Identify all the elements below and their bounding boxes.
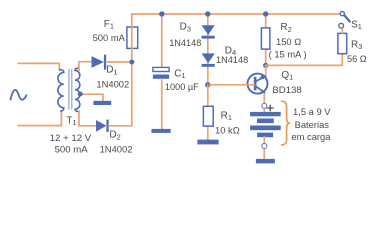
ground center tap xyxy=(93,101,111,105)
wire collector to battery xyxy=(263,91,265,112)
wire C1 to ground xyxy=(161,79,163,129)
resistor R3 56 ohm xyxy=(338,33,347,53)
svg-text:1N4002: 1N4002 xyxy=(100,144,133,155)
transformer T1 secondary winding xyxy=(75,68,80,112)
battery positive terminal xyxy=(262,103,267,108)
svg-text:D3: D3 xyxy=(180,22,191,34)
wire D1 cathode to rectifier node xyxy=(106,61,132,63)
label plus sign xyxy=(267,105,273,111)
wire rail through D3 D4 to base node xyxy=(207,14,209,85)
wire emitter node to R3 xyxy=(266,54,343,66)
wire battery to bottom terminal xyxy=(263,137,265,160)
wire top supply rail xyxy=(132,13,340,15)
node base bias xyxy=(205,82,210,87)
svg-text:12 + 12 V: 12 + 12 V xyxy=(50,133,92,144)
AC source sine symbol xyxy=(11,90,27,100)
svg-text:1000 µF: 1000 µF xyxy=(165,82,199,92)
resistor R1 10k xyxy=(203,106,213,126)
wire base node to transistor base xyxy=(210,84,255,86)
transistor Q1 BD138 xyxy=(248,74,268,94)
wire R3 to switch xyxy=(341,26,343,34)
svg-text:C1: C1 xyxy=(174,68,185,80)
wire rail through R2 to emitter node xyxy=(265,14,267,65)
wire D2 cathode to rectifier node xyxy=(109,125,132,127)
ground C1 xyxy=(152,129,171,133)
svg-text:1N4148: 1N4148 xyxy=(216,55,248,65)
ground battery xyxy=(256,159,275,164)
wire rail to C1 xyxy=(161,14,163,68)
brace battery annotation xyxy=(282,101,289,145)
svg-text:BD138: BD138 xyxy=(272,85,301,96)
node rail C1 xyxy=(159,11,164,16)
svg-text:S1: S1 xyxy=(351,19,362,31)
wire base node to R1 and ground xyxy=(207,85,209,140)
svg-text:F1: F1 xyxy=(104,19,114,31)
wire center tap to ground xyxy=(80,94,103,101)
node center tap xyxy=(78,92,83,97)
svg-text:R3: R3 xyxy=(351,39,362,51)
svg-text:R2: R2 xyxy=(280,22,291,34)
capacitor C1 1000uF xyxy=(153,67,169,78)
diode D2 1N4002 xyxy=(96,120,109,132)
wire emitter node to transistor xyxy=(265,65,267,77)
transformer T1 core xyxy=(69,70,72,110)
battery cells xyxy=(250,112,281,137)
svg-text:T1: T1 xyxy=(66,115,76,127)
fuse F1 body xyxy=(127,27,138,48)
switch S1 xyxy=(339,12,350,29)
wire rectifier node through fuse to top rail xyxy=(131,14,133,126)
svg-text:Baterias: Baterias xyxy=(295,119,330,130)
wire AC bottom to transformer primary xyxy=(18,112,61,126)
wire AC top to transformer primary xyxy=(18,63,59,70)
node rectifier output xyxy=(129,60,134,65)
battery negative terminal xyxy=(262,143,267,148)
svg-text:em carga: em carga xyxy=(291,131,331,142)
svg-text:D2: D2 xyxy=(109,130,120,142)
svg-text:D1: D1 xyxy=(106,65,117,77)
node rail R2 xyxy=(263,11,268,16)
svg-text:1N4148: 1N4148 xyxy=(169,38,201,48)
svg-text:Q1: Q1 xyxy=(281,70,293,82)
wire secondary bottom to diode D2 xyxy=(79,111,96,126)
svg-text:1N4002: 1N4002 xyxy=(96,79,129,90)
diode D1 1N4002 xyxy=(92,55,107,70)
svg-text:150 Ω: 150 Ω xyxy=(276,36,301,47)
svg-text:R1: R1 xyxy=(221,110,232,122)
node rail D3 xyxy=(205,11,210,16)
wire secondary top to diode D1 xyxy=(79,62,92,71)
resistor R2 150 ohm xyxy=(261,28,270,49)
svg-text:500 mA: 500 mA xyxy=(93,32,126,43)
svg-text:56 Ω: 56 Ω xyxy=(347,54,367,64)
node emitter junction xyxy=(263,63,268,68)
svg-text:( 15 mA ): ( 15 mA ) xyxy=(269,48,307,59)
svg-text:500 mA: 500 mA xyxy=(55,145,89,156)
diode D3 1N4148 xyxy=(202,25,215,38)
diode D4 1N4148 xyxy=(202,53,215,66)
svg-text:1,5 a 9 V: 1,5 a 9 V xyxy=(293,106,331,117)
transformer T1 primary winding xyxy=(58,70,64,112)
svg-text:10 kΩ: 10 kΩ xyxy=(215,124,240,135)
ground R1 xyxy=(197,140,218,145)
